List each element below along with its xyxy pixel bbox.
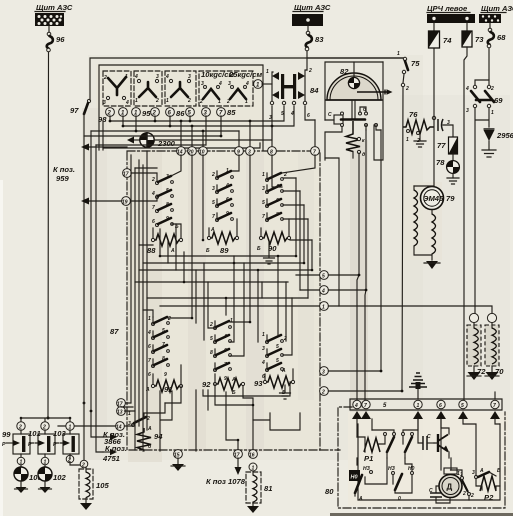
switch 83 <box>305 26 324 51</box>
terminal 14 <box>177 147 186 156</box>
svg-text:9: 9 <box>164 372 167 378</box>
svg-text:2956: 2956 <box>496 131 513 140</box>
terminal 6 <box>166 108 175 117</box>
svg-text:Б: Б <box>206 248 210 254</box>
svg-text:1: 1 <box>406 137 409 143</box>
svg-text:3: 3 <box>269 115 272 121</box>
wire <box>488 48 490 85</box>
terminal 20 <box>187 147 196 156</box>
svg-text:А: А <box>170 248 175 254</box>
busbar (hatched) Щит АЗС top-left <box>35 13 64 26</box>
svg-text:3: 3 <box>262 346 265 352</box>
svg-text:15: 15 <box>174 453 180 459</box>
terminal 13 (bottom-left) <box>117 407 126 416</box>
svg-text:1: 1 <box>322 305 325 311</box>
svg-text:2: 2 <box>470 493 474 499</box>
terminal 14 (bottom-left) <box>116 422 125 431</box>
terminal 8 <box>268 147 277 156</box>
svg-text:3: 3 <box>262 186 265 192</box>
terminal 1 (coil 81) <box>249 463 257 472</box>
wire (69 outputs) <box>475 108 489 306</box>
svg-text:84: 84 <box>310 86 319 95</box>
svg-text:1: 1 <box>166 98 169 104</box>
terminal 4 <box>352 400 362 419</box>
diode 2956 <box>482 129 513 157</box>
terminal 1 (right) <box>320 302 329 311</box>
svg-text:1: 1 <box>266 69 269 75</box>
svg-text:2: 2 <box>405 86 409 92</box>
svg-text:14: 14 <box>177 150 183 156</box>
svg-text:2: 2 <box>211 172 215 178</box>
gauge lamp <box>348 77 359 88</box>
svg-text:85: 85 <box>227 108 236 117</box>
ground (terminal 15) <box>171 458 185 471</box>
svg-text:7: 7 <box>212 214 215 220</box>
wire (terminal 2 to riser) <box>328 390 402 392</box>
svg-text:3: 3 <box>322 370 325 376</box>
wire (feed bus) <box>21 418 70 422</box>
ballast coil 81 <box>246 471 272 513</box>
regulator 103 <box>53 429 79 456</box>
svg-text:73: 73 <box>475 35 484 44</box>
svg-text:Р1: Р1 <box>364 454 373 463</box>
svg-text:Н0: Н0 <box>351 475 358 481</box>
svg-text:6: 6 <box>152 219 155 225</box>
svg-text:80: 80 <box>325 487 334 496</box>
svg-text:81: 81 <box>264 484 272 493</box>
earth electrode (above box 80) <box>409 373 427 399</box>
svg-text:74: 74 <box>443 36 452 45</box>
wire (left riser bundle) <box>91 121 103 452</box>
terminal 7 <box>311 147 320 156</box>
terminal 2 (coil 105) <box>80 460 88 468</box>
svg-text:7: 7 <box>148 358 151 364</box>
svg-text:6: 6 <box>148 344 151 350</box>
relay 84 <box>266 68 319 121</box>
svg-text:1: 1 <box>245 99 248 105</box>
svg-text:3: 3 <box>212 186 215 192</box>
line К поз.1078 <box>235 458 242 475</box>
svg-text:4: 4 <box>321 289 325 295</box>
wire (dome stem) <box>352 100 355 118</box>
svg-text:2: 2 <box>199 99 203 105</box>
terminal 3 <box>246 147 255 156</box>
regulator 101 <box>28 429 55 458</box>
svg-text:3: 3 <box>466 108 469 114</box>
contact НЗ-О (bottom middle) <box>388 458 415 502</box>
svg-text:6: 6 <box>148 372 151 378</box>
svg-text:4751: 4751 <box>102 454 120 463</box>
selector group with resistor 93 <box>254 332 295 399</box>
auxiliary contacts (80) <box>372 419 418 458</box>
svg-text:4: 4 <box>290 111 294 117</box>
contact 3-1-2 <box>451 470 475 500</box>
wire <box>48 26 50 32</box>
svg-text:Д: Д <box>447 483 453 492</box>
svg-text:К поз 1078: К поз 1078 <box>206 477 246 486</box>
svg-text:1: 1 <box>262 332 265 338</box>
contact set C (inside 82) <box>325 106 381 160</box>
terminal 1 <box>119 108 128 117</box>
pressure switch module (98) <box>103 71 131 106</box>
svg-text:5: 5 <box>212 200 215 206</box>
svg-text:19: 19 <box>122 200 128 206</box>
svg-text:25кgс/см: 25кgс/см <box>228 70 262 79</box>
svg-text:88: 88 <box>147 246 156 255</box>
svg-text:4: 4 <box>147 330 151 336</box>
svg-text:4: 4 <box>354 403 358 409</box>
line К поз.959 (upper) <box>81 144 127 151</box>
terminal 7 <box>361 400 371 419</box>
svg-text:20: 20 <box>187 150 194 156</box>
svg-text:С: С <box>328 112 332 118</box>
svg-text:96: 96 <box>56 35 65 44</box>
svg-text:1: 1 <box>148 316 151 322</box>
svg-text:76: 76 <box>409 110 418 119</box>
svg-text:959: 959 <box>56 174 69 183</box>
junction dots (box 87) <box>159 239 314 442</box>
motor Д <box>439 419 466 498</box>
svg-text:Щит АЗС: Щит АЗС <box>36 3 73 12</box>
svg-text:10: 10 <box>199 150 205 156</box>
line К поз.4751 <box>103 449 117 455</box>
svg-text:А: А <box>281 368 286 374</box>
svg-text:ЦРЧ левое: ЦРЧ левое <box>427 4 468 13</box>
svg-text:2: 2 <box>308 68 312 74</box>
svg-text:78: 78 <box>436 158 445 167</box>
svg-text:7: 7 <box>364 403 367 409</box>
line К поз.3866 <box>103 434 117 440</box>
wire (feeder to solenoids) <box>475 306 492 313</box>
svg-text:2: 2 <box>209 322 213 328</box>
capacitor junction (x) <box>432 116 453 137</box>
lamp 100 <box>14 465 42 493</box>
svg-text:5: 5 <box>461 403 464 409</box>
svg-text:99: 99 <box>2 430 11 439</box>
svg-text:16: 16 <box>249 453 255 459</box>
svg-text:1: 1 <box>128 411 131 417</box>
svg-text:83: 83 <box>315 35 324 44</box>
resistor 76 <box>403 110 434 147</box>
svg-text:3: 3 <box>472 470 475 476</box>
selector group with resistor 94 <box>128 403 165 451</box>
busbar Щит АЗС top-right <box>479 14 501 23</box>
terminal 10 <box>199 147 208 156</box>
svg-text:5: 5 <box>262 200 265 206</box>
svg-text:1: 1 <box>135 98 138 104</box>
terminal 1 (right of module 85) <box>254 80 272 89</box>
svg-text:17: 17 <box>123 172 129 178</box>
capacitor С (upper) <box>418 419 434 450</box>
line К поз.959 (lower) <box>81 198 122 205</box>
busbar ЦРЧ <box>427 14 475 23</box>
svg-text:2: 2 <box>81 463 85 469</box>
svg-text:2: 2 <box>152 111 157 117</box>
svg-text:4: 4 <box>165 74 169 80</box>
svg-text:13: 13 <box>117 410 123 416</box>
svg-text:7: 7 <box>262 214 265 220</box>
svg-text:75: 75 <box>411 59 420 68</box>
svg-text:7: 7 <box>152 205 155 211</box>
svg-text:К поз.: К поз. <box>105 444 127 453</box>
svg-text:д: д <box>362 152 365 158</box>
svg-text:2: 2 <box>187 98 191 104</box>
svg-text:4: 4 <box>465 86 469 92</box>
gauge pointer <box>357 89 393 95</box>
dual pressure switch module 85 <box>199 70 262 106</box>
selector group with resistor 92 <box>202 318 245 396</box>
terminal 3 <box>202 108 211 117</box>
terminal 4 (right) <box>320 286 329 295</box>
svg-text:А: А <box>147 426 152 432</box>
wire (terminal 5 to riser) <box>328 274 359 276</box>
relay contactor 69 <box>465 80 503 116</box>
terminal 1 (lamp 102) <box>41 457 49 465</box>
terminal 5 (right) <box>320 271 329 280</box>
svg-text:79: 79 <box>446 194 455 203</box>
svg-text:5: 5 <box>322 274 325 280</box>
svg-text:97: 97 <box>70 106 79 115</box>
svg-text:1: 1 <box>491 110 494 116</box>
control unit 80 (dash-dot border) <box>338 407 505 508</box>
svg-text:2: 2 <box>226 99 230 105</box>
selector group with resistor 91 <box>145 316 183 394</box>
svg-text:4: 4 <box>151 191 155 197</box>
svg-text:А: А <box>479 468 484 474</box>
svg-text:2: 2 <box>321 390 325 396</box>
switch 68 <box>487 23 506 48</box>
wire (top rail) <box>90 58 405 100</box>
svg-text:Щит АЗС: Щит АЗС <box>481 4 513 13</box>
svg-text:1: 1 <box>230 318 233 324</box>
ballast coil 105 <box>79 467 109 510</box>
svg-text:2: 2 <box>462 491 466 497</box>
terminal 3 (right) <box>320 367 329 376</box>
switch box 87 (dash-dot border) <box>127 151 320 450</box>
svg-text:1: 1 <box>417 403 420 409</box>
svg-text:А: А <box>231 377 236 383</box>
terminal strip <box>350 399 502 410</box>
junction dots <box>358 274 404 393</box>
svg-text:87: 87 <box>110 327 119 336</box>
svg-text:5: 5 <box>281 111 284 117</box>
wire (riser to contactor terminal 4) <box>357 275 359 400</box>
wire (terminal 14 link) <box>58 425 116 427</box>
svg-text:68: 68 <box>497 33 506 42</box>
svg-text:69: 69 <box>494 96 503 105</box>
svg-text:91: 91 <box>164 385 172 394</box>
wire (terminal 4 to riser) <box>328 289 366 291</box>
terminal 2 (right) <box>320 387 329 396</box>
terminal 2 (coil 105 feed) <box>66 455 74 463</box>
svg-text:4: 4 <box>134 74 138 80</box>
fuse 77 <box>437 137 458 154</box>
fuse 73 <box>462 23 484 47</box>
resistor (gauge shunt) <box>346 121 365 158</box>
fuse 74 <box>429 23 453 48</box>
svg-text:102: 102 <box>53 473 66 482</box>
solenoid 70 <box>485 313 504 380</box>
wire bus (switch unit outputs) <box>84 106 315 148</box>
svg-text:Б: Б <box>232 390 236 396</box>
svg-text:4: 4 <box>125 100 129 106</box>
svg-text:2: 2 <box>103 75 107 81</box>
signal lamp 2300 <box>127 132 176 148</box>
busbar Щит АЗС top-center <box>292 14 323 26</box>
terminal 1 (over 103) <box>66 422 74 431</box>
svg-text:8: 8 <box>210 350 213 356</box>
svg-text:72: 72 <box>477 367 486 376</box>
svg-text:Р2: Р2 <box>484 493 494 502</box>
svg-text:НЗ: НЗ <box>388 466 396 472</box>
gauge unit 82 enclosure <box>325 62 383 120</box>
svg-text:89: 89 <box>220 246 229 255</box>
wire (relay 84 to terminal 7) <box>305 106 315 120</box>
ground (group 93 area) <box>284 391 286 393</box>
svg-text:1: 1 <box>218 99 221 105</box>
wire (73 feeder) <box>464 47 467 400</box>
svg-text:Щит АЗС: Щит АЗС <box>294 3 331 12</box>
svg-text:3: 3 <box>103 100 106 106</box>
selector group with resistor 90 <box>257 172 291 264</box>
svg-text:1: 1 <box>262 172 265 178</box>
solenoid 72 <box>467 313 486 380</box>
resistor Р2 <box>463 419 501 502</box>
svg-text:86: 86 <box>176 109 185 118</box>
svg-text:0: 0 <box>398 496 401 502</box>
terminal 2 <box>106 108 115 117</box>
wire (left trunk) <box>47 52 50 418</box>
svg-text:2: 2 <box>151 177 155 183</box>
wire (103 to coil 105) <box>70 403 84 465</box>
svg-text:1: 1 <box>457 471 460 477</box>
wire mesh (box 87 interconnections) <box>121 151 320 451</box>
terminal 2 (over 99) <box>17 422 25 431</box>
lamp 102 <box>38 465 66 493</box>
capacitor С (lower) <box>429 486 450 503</box>
svg-text:4: 4 <box>261 360 265 366</box>
svg-text:92: 92 <box>202 380 211 389</box>
wire (terminal 7 stub) <box>494 392 496 399</box>
selector group with resistor 89 <box>206 168 239 255</box>
contact НО-А (bottom left) <box>349 458 387 502</box>
switch 97 <box>70 99 91 404</box>
svg-text:94: 94 <box>154 432 163 441</box>
terminal 6 <box>436 400 446 419</box>
terminal 1 <box>132 108 141 117</box>
svg-text:Б: Б <box>257 246 261 252</box>
terminal 15 (bottom) <box>174 450 183 459</box>
electromagnet 79 (ЭМ45) <box>414 48 455 269</box>
svg-text:А: А <box>358 496 363 502</box>
selector group with resistor 88 <box>131 173 183 255</box>
svg-text:1: 1 <box>397 51 400 57</box>
junction dots <box>109 120 274 138</box>
wire (riser to contactor terminal 7) <box>365 290 366 400</box>
svg-text:К поз.: К поз. <box>53 165 75 174</box>
wire (terminal 3 to riser) <box>328 370 381 372</box>
wire (terminal 1 to solenoid coils) <box>328 305 475 307</box>
svg-text:105: 105 <box>96 481 109 490</box>
svg-text:6: 6 <box>307 113 310 119</box>
svg-text:Н0: Н0 <box>408 466 415 472</box>
pressure switch module 86 <box>165 71 196 106</box>
pressure switch module 95 <box>134 71 162 106</box>
svg-text:5: 5 <box>210 336 213 342</box>
svg-text:В: В <box>497 468 501 474</box>
svg-text:70: 70 <box>495 367 504 376</box>
terminal 2 <box>151 108 160 117</box>
svg-text:95: 95 <box>142 109 151 118</box>
terminal 7 (right) <box>490 400 500 419</box>
svg-text:2: 2 <box>107 111 112 117</box>
terminal 1 (lamp 100) <box>17 457 25 465</box>
svg-text:2: 2 <box>155 98 159 104</box>
wire (dome feed) <box>353 62 355 77</box>
terminal 5 <box>186 108 195 117</box>
inner unit frame <box>358 424 500 500</box>
terminal 17 (left) <box>123 169 132 178</box>
terminal 7 <box>217 108 226 117</box>
terminal 17 (bottom) <box>234 450 243 459</box>
svg-text:7: 7 <box>493 403 496 409</box>
regulator 99 <box>2 430 30 458</box>
terminal 17 (bottom-left) <box>117 399 126 408</box>
svg-text:ЭМ45: ЭМ45 <box>423 194 444 203</box>
wire <box>307 51 405 70</box>
terminal 1 <box>413 400 423 419</box>
svg-text:93: 93 <box>254 379 263 388</box>
lamp 78 <box>436 154 459 184</box>
svg-text:17: 17 <box>234 453 240 459</box>
wire (82 exits) <box>325 62 383 371</box>
terminal 9 <box>235 147 244 156</box>
svg-text:6: 6 <box>439 403 442 409</box>
terminal 2 (over 101) <box>41 422 49 431</box>
gauge dome <box>325 73 383 100</box>
junction dots (bottom-left) <box>20 402 93 420</box>
switch 96 <box>47 32 66 52</box>
resistor Р1 <box>357 419 380 463</box>
switch-unit enclosure <box>99 65 263 150</box>
svg-text:77: 77 <box>437 141 446 150</box>
terminal 5 <box>458 400 468 419</box>
transistor (80) <box>434 419 449 458</box>
terminal 16 (bottom) <box>249 450 258 459</box>
terminal 19 (left) <box>122 197 131 206</box>
switch 75 <box>397 51 420 391</box>
